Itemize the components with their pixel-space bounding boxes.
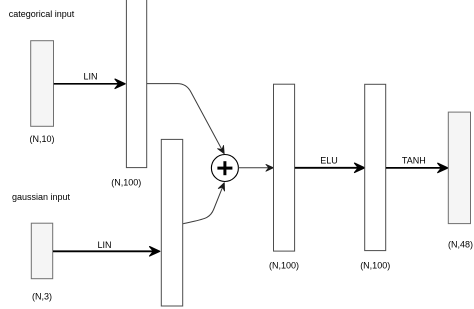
svg-text:TANH: TANH (402, 156, 426, 166)
svg-text:LIN: LIN (97, 240, 111, 250)
arrow LIN gaussian (53, 247, 160, 256)
arrow ELU (295, 163, 365, 172)
hidden layer block categorical (N,100) (126, 0, 146, 168)
hidden block 2 (N,100) (274, 84, 295, 251)
wire hidden categorical to sum (147, 84, 227, 156)
svg-text:(N,100): (N,100) (111, 177, 141, 187)
arrow TANH (386, 163, 448, 172)
svg-text:gaussian input: gaussian input (12, 192, 71, 202)
input block (N,10) (31, 41, 54, 127)
arrow LIN categorical (54, 79, 125, 88)
svg-text:(N,48): (N,48) (448, 239, 473, 249)
wire sum to hidden2 (238, 164, 273, 171)
hidden block 3 (N,100) (365, 84, 386, 250)
svg-text:(N,3): (N,3) (32, 292, 52, 302)
wire hidden gaussian to sum (183, 181, 228, 223)
svg-text:ELU: ELU (320, 155, 338, 165)
svg-text:categorical input: categorical input (9, 9, 75, 19)
svg-text:(N,10): (N,10) (29, 134, 54, 144)
hidden layer block gaussian (N,100) (161, 139, 182, 306)
input block (N,3) (31, 223, 52, 279)
svg-text:(N,100): (N,100) (360, 261, 390, 271)
svg-text:(N,100): (N,100) (269, 261, 299, 271)
svg-text:LIN: LIN (83, 72, 97, 82)
output block (N,48) (448, 112, 470, 224)
sum node (211, 155, 238, 182)
